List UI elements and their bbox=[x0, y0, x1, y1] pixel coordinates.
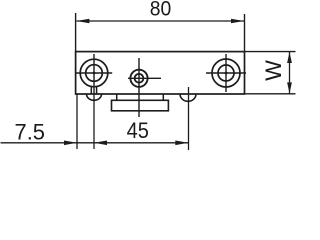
svg-text:45: 45 bbox=[127, 118, 149, 143]
svg-text:80: 80 bbox=[150, 0, 172, 21]
svg-text:7.5: 7.5 bbox=[15, 120, 46, 145]
svg-text:W: W bbox=[261, 60, 286, 81]
